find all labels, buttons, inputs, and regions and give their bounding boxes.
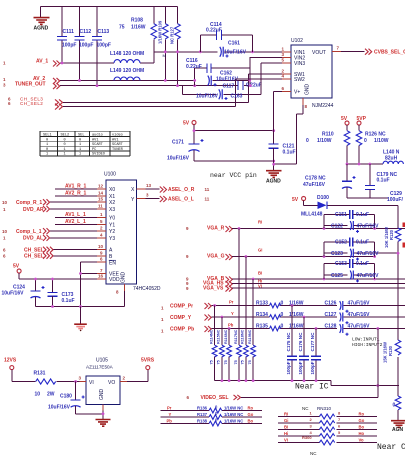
capacitor C176 NC [298,317,309,381]
junction [213,304,216,307]
svg-text:Near C13: Near C13 [377,443,405,452]
svg-text:AV1_L_1: AV1_L_1 [65,212,86,218]
svg-text:NC R127: NC R127 [170,26,175,44]
svg-text:Y0: Y0 [109,216,115,222]
svg-text:Y2: Y2 [109,229,115,235]
svg-text:Comp_R_1: Comp_R_1 [16,200,42,206]
junction [252,379,255,382]
wire Gi line [232,256,376,258]
svg-text:C171: C171 [172,140,184,146]
wire Pb row [212,328,405,330]
svg-text:14: 14 [98,190,104,195]
svg-text:AZ1117E50A: AZ1117E50A [86,365,114,370]
svg-text:1: 1 [79,148,81,152]
svg-text:12VS: 12VS [4,358,17,364]
svg-text:R108: R108 [131,18,143,24]
junction [228,379,231,382]
svg-text:U105: U105 [96,358,108,364]
svg-text:DVD_AL: DVD_AL [23,236,43,242]
svg-text:Y: Y [231,311,234,316]
resistor R110 [306,131,350,164]
port TUNER_OUT [3,82,60,90]
resistor network RN310 row4 [278,430,377,438]
svg-text:5V: 5V [183,121,190,127]
wire AV1 bus y=51.8 [154,51,282,53]
junction [193,79,196,82]
wire drop Pb term [228,329,230,381]
capacitor C179 [365,164,398,198]
regulator U105 box [86,376,120,405]
svg-text:COMP_Pb: COMP_Pb [170,327,194,333]
svg-text:10: 10 [2,229,8,234]
svg-text:SCART: SCART [112,143,124,147]
svg-text:R110: R110 [322,132,334,138]
wire HS line [232,283,405,285]
svg-text:10K 1/16W: 10K 1/16W [384,227,389,248]
svg-text:C127: C127 [325,312,337,318]
svg-text:0.1uF: 0.1uF [283,150,296,156]
wire Pr row [212,305,405,307]
svg-text:C161: C161 [228,41,240,47]
junction [34,278,37,281]
svg-text:DVD_AR: DVD_AR [23,207,44,213]
junction [303,379,306,382]
svg-text:11: 11 [98,204,103,209]
svg-text:47uF/16V: 47uF/16V [357,251,380,257]
svg-text:RN310: RN310 [317,406,332,411]
svg-text:10uF/16V: 10uF/16V [167,156,190,162]
svg-text:12: 12 [98,184,104,189]
svg-text:audio: audio [92,132,103,137]
wire CH_SEL2 [63,79,236,107]
svg-text:100pF: 100pF [298,361,303,374]
svg-text:100pF: 100pF [310,361,315,374]
svg-text:0.22uF: 0.22uF [186,64,202,70]
port Comp_L_1 [49,230,106,232]
svg-text:1: 1 [79,153,81,157]
svg-text:video: video [112,132,123,137]
power 12VS [4,358,36,382]
svg-text:GND: GND [305,84,311,96]
power 5V (left) [183,121,196,144]
resistor network RN310 row1 [278,411,377,419]
junction [397,252,400,255]
resistor network RN310 row3 [278,424,377,432]
svg-text:100pF: 100pF [286,361,291,374]
svg-text:VGA_R: VGA_R [207,226,225,232]
capacitor C178 (polar) [303,164,356,198]
svg-text:LOW:INPUT1: LOW:INPUT1 [352,337,380,343]
svg-text:C128: C128 [325,324,337,330]
wire Bi line [232,278,405,280]
wire U105 GND stub [102,405,104,419]
svg-text:75: 75 [119,25,125,31]
svg-text:VGA_G: VGA_G [207,254,225,260]
junction [79,305,82,308]
svg-text:NC: NC [302,406,309,411]
wire Y row [212,316,405,318]
svg-text:R115NC: R115NC [217,329,221,344]
svg-text:C180: C180 [60,394,72,400]
wire V+ drop [273,92,275,144]
svg-text:V+: V+ [294,90,300,96]
svg-text:C122: C122 [331,223,343,229]
ground (U105) [96,420,111,427]
capacitor pair B: C153 [324,259,375,279]
port ASEL_O_L [137,198,160,200]
junction [245,255,248,258]
svg-text:R136: R136 [197,406,208,411]
svg-text:75: 75 [241,360,245,364]
resistor R117 [237,345,242,357]
resistor R131 [34,371,56,398]
svg-text:Pb: Pb [228,323,234,328]
svg-text:0: 0 [281,301,284,307]
svg-text:Gi: Gi [284,418,288,423]
junction [221,379,224,382]
svg-text:SEL2: SEL2 [61,133,70,137]
junction [272,160,275,163]
junction [193,129,196,132]
svg-text:VIDEO_SEL: VIDEO_SEL [201,395,229,401]
svg-text:U102: U102 [291,38,303,44]
U100 left pin numbers [98,184,104,279]
capacitor C161 (polar) [220,41,247,58]
resistor 0 ohm to gnd [393,386,401,421]
wire CH_SEL3 [63,74,249,102]
svg-text:CVBS_SEL_O: CVBS_SEL_O [374,50,405,56]
svg-text:C125: C125 [331,273,343,279]
svg-text:5VRS: 5VRS [141,358,155,364]
junction [252,278,255,281]
svg-text:PC: PC [92,148,96,152]
svg-text:AGN: AGN [392,427,404,433]
junction [291,304,294,307]
port DVD_AR [49,208,106,210]
svg-text:16: 16 [98,274,104,279]
svg-text:C151: C151 [335,212,347,218]
svg-text:Ri: Ri [284,412,288,417]
op-amp U102 box [291,45,332,98]
wire bottom rail [347,197,388,199]
svg-text:C113: C113 [98,29,110,35]
junction [251,50,254,53]
power 5VRS [141,358,155,370]
wire VIN1 stub [282,51,291,53]
inductor L149 [110,68,144,80]
wire AV_2 line [60,79,195,81]
svg-text:TUNER_OUT: TUNER_OUT [15,82,46,88]
resistor R143 [227,345,232,357]
svg-text:1/10W: 1/10W [374,138,389,144]
svg-text:Vo: Vo [359,438,364,443]
junction [272,163,275,166]
capacitor C121 [269,144,296,171]
svg-text:47uF/16V: 47uF/16V [348,301,371,307]
svg-text:NC: NC [310,451,317,456]
svg-text:U100: U100 [104,172,116,178]
svg-text:AGND: AGND [266,179,281,185]
pin stubs U105 (red) [80,382,128,411]
junction dots on bus [164,50,167,53]
wire Y bottom row [160,411,262,419]
svg-text:Ho: Ho [359,431,365,436]
svg-text:MLL4148: MLL4148 [301,212,323,218]
junction [373,278,376,281]
junction [78,79,81,82]
svg-text:R131: R131 [34,371,46,377]
svg-text:C152: C152 [335,240,347,246]
junction [221,316,224,319]
junction [323,255,326,258]
junction [291,379,294,382]
svg-text:10uF/16V: 10uF/16V [216,77,239,83]
svg-text:VDD: VDD [109,277,120,283]
capacitor C126 (polar) [325,301,371,313]
wire 5V/5VP rail [347,163,383,165]
capacitor C112 [75,7,94,81]
svg-text:R114NC: R114NC [209,329,213,344]
resistor network RN310 row2 [278,417,377,425]
svg-text:100pF: 100pF [97,43,111,49]
resistor R135 [256,324,304,331]
svg-text:Gi: Gi [258,248,262,253]
junction [323,278,326,281]
junction [51,278,54,281]
capacitor C173 [48,279,75,307]
capacitor C162 (polar) [208,58,250,87]
inductor L140 [383,150,403,165]
junction [368,163,371,166]
ground (signal gnd triangle) [74,307,87,332]
svg-text:AGND: AGND [34,26,49,32]
resistor group1 Pr/Y/Pb terminations [209,306,231,381]
resistor R133 [256,301,304,308]
svg-text:AV1_R_1: AV1_R_1 [65,184,87,190]
ground AGND (top-left) [34,7,50,32]
capacitor C123 (polar) [324,249,398,261]
port CH_SEL (A) [52,249,106,251]
junction [249,79,252,82]
wire Pb bottom row [160,418,262,426]
capacitor C124 (polar) [2,279,45,307]
svg-text:AV1: AV1 [92,138,98,142]
resistor R142 [219,345,224,357]
svg-text:Y: Y [169,412,172,417]
junction [228,327,231,330]
svg-text:10uF/16V: 10uF/16V [48,405,71,411]
svg-text:11: 11 [205,187,210,192]
ground AGND (bottom right) [391,421,405,433]
svg-text:C117: C117 [223,84,235,90]
svg-text:1/16W NC: 1/16W NC [224,406,243,411]
wire VIN3 [261,62,291,64]
svg-text:COMP_Y: COMP_Y [170,315,192,321]
svg-text:0: 0 [364,138,367,144]
svg-text:Vi: Vi [284,438,288,443]
svg-text:SW2: SW2 [294,77,305,83]
junction [164,79,167,82]
svg-text:1/16W: 1/16W [289,312,304,318]
svg-text:C153: C153 [335,261,347,267]
svg-text:Bi: Bi [258,271,262,276]
junction [346,163,349,166]
junction [245,379,248,382]
svg-text:1/16W NC: 1/16W NC [224,412,243,417]
svg-text:AV_1: AV_1 [36,59,48,65]
svg-text:1: 1 [46,153,48,157]
junction [373,227,376,230]
svg-text:75: 75 [224,360,228,364]
wire VDD 5V rail [19,278,106,280]
junction [61,62,64,65]
wire VO to 5VRS [120,370,148,382]
svg-text:Bi: Bi [284,425,288,430]
svg-text:C112: C112 [80,29,92,35]
power 5V [341,116,349,131]
svg-text:R137: R137 [197,412,208,417]
svg-text:VI: VI [89,380,94,386]
svg-text:NJM2244: NJM2244 [312,103,334,109]
port AV_1 [3,59,60,67]
junction [176,50,179,53]
wire C180 gnd rail [76,413,103,415]
svg-text:100pF: 100pF [79,43,93,49]
resistor R134 [256,312,304,319]
mux U100 box [106,180,137,284]
svg-text:Near IC: Near IC [295,383,329,392]
svg-text:15K 1/16W: 15K 1/16W [383,342,388,363]
capacitor C117 [223,81,262,90]
wire SW1 [249,73,292,75]
svg-text:0: 0 [306,138,309,144]
svg-text:10uF/16V: 10uF/16V [224,50,247,56]
svg-text:R118NC: R118NC [241,329,245,344]
svg-text:TUNER: TUNER [112,148,124,152]
junction [238,227,241,230]
svg-text:Go: Go [359,418,365,423]
svg-text:C126: C126 [325,301,337,307]
svg-text:0: 0 [281,324,284,330]
wire 5V rail [194,130,274,132]
port ASEL_O_R [137,188,160,190]
svg-text:VOUT: VOUT [312,50,326,56]
svg-text:10uF/16V: 10uF/16V [196,94,219,100]
svg-text:1/10W: 1/10W [317,138,332,144]
svg-text:100pF: 100pF [62,43,76,49]
svg-text:D100: D100 [317,195,329,201]
resistor R126 [356,131,389,164]
svg-text:VO: VO [108,380,115,386]
capacitor C116 [186,58,250,86]
svg-text:Bo: Bo [359,425,365,430]
svg-text:10: 10 [98,244,104,249]
junction [176,84,179,87]
capacitor C114 [200,22,252,52]
svg-text:GND: GND [99,389,105,401]
junction [358,163,361,166]
svg-text:R116NC: R116NC [224,329,228,344]
svg-text:L149 120 OHM: L149 120 OHM [110,68,144,74]
svg-text:COMP_Pr: COMP_Pr [170,304,193,310]
port CH_SEL2 [8,101,63,110]
svg-text:SVIDEO: SVIDEO [92,153,105,157]
diode D100 [301,195,398,218]
wire AV1_R_1 [55,188,106,190]
resistor R300 row5 [278,435,377,445]
svg-text:R133: R133 [256,301,268,307]
svg-text:CH_SEL: CH_SEL [24,248,44,254]
svg-text:R119NC: R119NC [248,329,252,344]
capacitor C113 [92,7,111,86]
wire termination bus [215,381,399,386]
svg-text:1/16W R109: 1/16W R109 [158,20,163,44]
wire SW2 [236,78,291,80]
wire Pb-out rail down [377,329,379,398]
svg-text:47uF/16V: 47uF/16V [348,312,371,318]
svg-text:C178 NC: C178 NC [305,176,326,182]
svg-text:1/16W: 1/16W [289,324,304,330]
wire AV2_L_1 [55,223,106,225]
svg-text:75: 75 [234,360,238,364]
svg-text:AV2_L_1: AV2_L_1 [65,219,86,225]
resistor R108 [119,7,157,52]
capacitor C180 (polar) [48,382,85,414]
svg-text:SEL: SEL [78,133,84,137]
capacitor pair G: C152 [324,238,375,257]
junction [323,227,326,230]
svg-text:C111: C111 [63,29,75,35]
svg-text:R134: R134 [256,312,268,318]
resistor R130 [383,340,401,386]
U100 GND pin 8 [124,284,126,307]
junction [74,380,77,383]
svg-text:AV1: AV1 [112,138,118,142]
svg-text:10: 10 [35,392,41,398]
port CH_SEL3 [8,97,63,106]
table sel/audio/video [40,131,130,157]
capacitor C122 (polar) [324,221,379,233]
svg-text:0: 0 [79,138,81,142]
svg-text:1: 1 [79,143,81,147]
svg-text:0: 0 [46,138,48,142]
svg-text:VIN3: VIN3 [294,61,305,67]
resistor R109 [158,7,169,81]
capacitor pair R: C151 [324,210,375,229]
svg-text:0: 0 [46,148,48,152]
pin stubs U100 (red) [97,189,146,291]
capacitor C163 (polar) [182,63,261,100]
svg-text:Y3: Y3 [109,236,115,242]
resistor R127 [170,7,181,86]
svg-text:X3: X3 [109,207,115,213]
svg-text:75: 75 [209,360,213,364]
svg-text:C175 NC: C175 NC [286,332,291,352]
ground AGND (near VCC) [266,171,282,185]
clipped red labels at page edge [403,223,405,228]
capacitor C128 (polar) [325,324,371,336]
junction [238,379,241,382]
svg-text:1/16W: 1/16W [131,25,146,31]
svg-text:47uF/16V: 47uF/16V [357,223,380,229]
svg-text:AV2_R_1: AV2_R_1 [65,190,87,196]
svg-text:C163: C163 [231,94,243,100]
port Comp_R_1 [49,201,106,203]
svg-text:Pb: Pb [167,419,173,424]
svg-text:0: 0 [64,138,66,142]
svg-text:CH_SEL: CH_SEL [24,254,44,260]
inductor L148 [110,51,144,63]
